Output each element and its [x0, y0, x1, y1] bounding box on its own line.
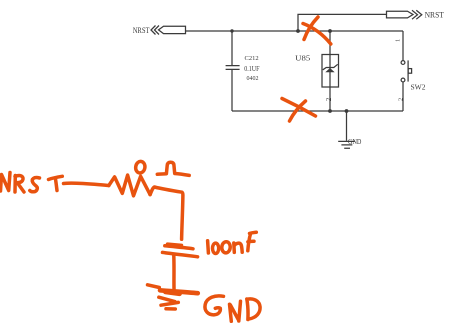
annotation: orange X over bottom rail	[282, 99, 316, 122]
switch SW2	[401, 60, 412, 82]
svg-text:1: 1	[395, 39, 402, 42]
handwritten net label GND	[205, 296, 260, 321]
annotation: orange X over U85 pin 1 wire	[303, 17, 331, 44]
port symbol NRST (left)	[151, 26, 186, 35]
junction: top rail / U85 pin 1	[328, 29, 332, 33]
junction: top rail / C212	[230, 29, 233, 32]
svg-text:NRST: NRST	[425, 10, 445, 20]
capacitor C212	[226, 66, 240, 70]
handwritten wire: NRST to resistor	[64, 183, 109, 185]
port symbol NRST (right)	[387, 10, 422, 19]
svg-text:U85: U85	[295, 54, 310, 63]
junction: top rail / right port stub	[296, 29, 300, 33]
svg-text:GND: GND	[348, 137, 362, 146]
wire: U85 pin 1	[329, 31, 331, 55]
wire: stub from top rail to right port	[298, 14, 387, 31]
handwritten pulse mark	[157, 162, 189, 175]
wire: top rail	[186, 30, 404, 32]
handwritten resistor	[109, 175, 150, 196]
handwritten value label 100nF	[208, 232, 257, 253]
svg-text:SW2: SW2	[411, 83, 426, 92]
wire: SW2 pin 1	[402, 31, 404, 60]
wire: ground stem	[346, 111, 348, 141]
svg-text:C212: C212	[245, 55, 259, 62]
handwritten ground symbol	[148, 285, 198, 309]
wire: C212 top lead	[231, 31, 233, 65]
svg-text:0402: 0402	[247, 76, 259, 82]
TVS diode U85	[322, 55, 339, 88]
handwritten capacitor	[163, 244, 198, 257]
wire: U85 pin 2 to bottom rail	[329, 87, 331, 111]
junction: bottom rail / U85 pin 2	[328, 109, 332, 113]
ground symbol	[338, 141, 354, 148]
svg-text:2: 2	[325, 97, 333, 101]
handwritten wire: resistor to capacitor	[150, 187, 183, 239]
wire: bottom rail	[232, 110, 403, 112]
svg-text:0.1UF: 0.1UF	[244, 65, 259, 73]
wire: SW2 pin 2 to bottom rail	[402, 82, 404, 111]
handwritten circle mark	[135, 161, 146, 174]
junction: bottom rail / ground	[345, 109, 349, 113]
wire: C212 bottom lead	[231, 70, 233, 111]
handwritten net label NRST	[1, 173, 63, 193]
handwritten wire: capacitor to ground	[172, 256, 176, 291]
svg-text:NRST: NRST	[133, 25, 150, 35]
